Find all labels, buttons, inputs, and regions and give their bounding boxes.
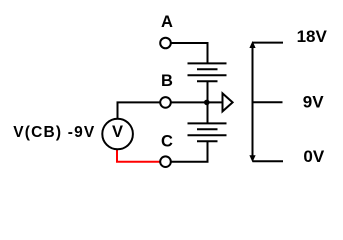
svg-text:18V: 18V bbox=[297, 27, 328, 46]
svg-text:A: A bbox=[161, 13, 173, 31]
svg-text:B: B bbox=[161, 72, 173, 90]
svg-text:9V: 9V bbox=[303, 93, 324, 112]
svg-text:0V: 0V bbox=[303, 147, 324, 166]
svg-text:C: C bbox=[161, 133, 173, 151]
svg-text:V(CB) -9V: V(CB) -9V bbox=[13, 124, 95, 141]
svg-text:V: V bbox=[112, 123, 123, 141]
